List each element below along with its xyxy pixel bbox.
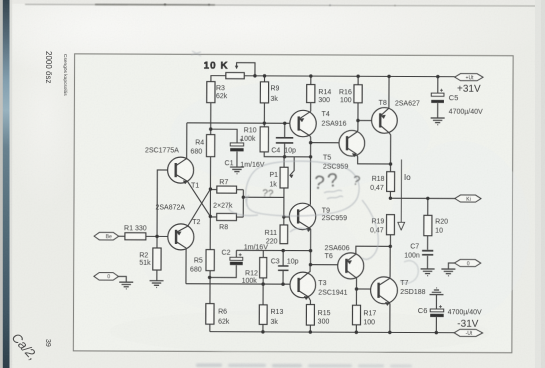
- wire 10K pot bracket: [237, 63, 255, 76]
- pencil annotations: [191, 51, 418, 283]
- wire T7 base: [357, 288, 371, 290]
- wire 0-in pennant to ground: [118, 276, 126, 282]
- capacitor C7 ceramic: [422, 251, 433, 255]
- transistor T8 circle: [372, 108, 398, 134]
- wire C2 top lead: [235, 250, 237, 257]
- wire 0-out pennant to ground: [448, 263, 454, 269]
- pennant 0 input: [94, 273, 119, 281]
- wire T7 collector riser: [389, 246, 391, 278]
- wire R12 leads: [262, 250, 264, 284]
- pencil curl near T7: [400, 261, 418, 283]
- wire R8 leads: [210, 216, 243, 218]
- node T9c: [309, 155, 312, 158]
- capacitor C1 electrolytic: [230, 138, 243, 151]
- Io current arrow line: [400, 159, 402, 222]
- ground C7: [421, 269, 435, 276]
- pencil question marks: [262, 170, 362, 200]
- resistor R18: [387, 172, 395, 192]
- node rail-R14: [309, 74, 312, 77]
- node rail-R16: [356, 75, 359, 78]
- T3 base bar and leads (npn): [299, 273, 309, 300]
- resistor R17: [352, 305, 360, 325]
- pennant Be: [94, 232, 119, 240]
- wire R19 bottom lead: [389, 235, 391, 247]
- wire mid node line y250.6: [236, 249, 310, 251]
- transistor T9 circle: [289, 203, 316, 230]
- wire C7 bottom to ground: [427, 256, 429, 269]
- wire R5 bottom to R6: [209, 271, 211, 332]
- transistor internals: [175, 66, 391, 306]
- wire P1 bottom to R11: [283, 188, 285, 225]
- wire output line to Ki: [390, 197, 454, 199]
- wire T3 collector riser: [308, 265, 310, 273]
- wire T1 collector riser: [186, 123, 188, 159]
- ground output 0: [441, 269, 455, 276]
- pennant Ki: [455, 195, 481, 202]
- resistor 10K (trimmer at top): [226, 73, 244, 79]
- wire R7 leads: [210, 189, 243, 191]
- pennant labels: [105, 74, 474, 337]
- resistor R7: [217, 186, 237, 193]
- T6 base bar and leads (pnp): [346, 254, 356, 278]
- wire T5 collector riser: [356, 120, 359, 131]
- ground input 0: [119, 282, 133, 289]
- wire C4 leads: [284, 123, 286, 156]
- node T8c-T5e-R18: [389, 162, 392, 165]
- node R3-R4-C1: [209, 127, 212, 130]
- resistor R15: [306, 305, 314, 326]
- node R9-R10-T4b: [263, 121, 266, 124]
- terminal pennants: [94, 72, 484, 336]
- transistor T7 circle: [371, 277, 398, 304]
- resistor R2: [153, 248, 161, 270]
- ground C5: [431, 118, 445, 125]
- pencil big loop: [246, 161, 359, 216]
- pencil small inner curve: [228, 207, 258, 216]
- node R19-T6e-T7c: [389, 245, 392, 248]
- T1 base bar and leads: [176, 158, 188, 184]
- T8 base bar and leads (pnp): [380, 108, 389, 133]
- wire T9 base: [284, 216, 298, 218]
- node C4-P1: [283, 155, 286, 158]
- wire C2 bottom L: [210, 265, 237, 278]
- node rail-T7e: [388, 331, 391, 334]
- wire R13 leads: [262, 284, 264, 332]
- node R5-R6-C2: [208, 276, 211, 279]
- node rail-R9: [263, 74, 266, 77]
- wire R9 leads: [263, 76, 265, 127]
- node C3 bottom: [281, 282, 284, 285]
- resistor R8: [217, 213, 237, 220]
- wire T6 emitter up: [356, 246, 391, 254]
- pennant -Ut: [454, 329, 482, 336]
- wire R16 leads: [357, 76, 359, 120]
- wire T1 base riser: [157, 170, 176, 236]
- resistor R1: [125, 233, 146, 240]
- node input bases: [155, 235, 158, 238]
- wire R3-R4 column: [210, 103, 212, 135]
- ground symbols: [119, 117, 456, 295]
- component bodies: [125, 72, 433, 325]
- resistor R9: [260, 82, 268, 103]
- wire C3 leads: [282, 251, 284, 285]
- T2 base bar and leads (pnp): [176, 226, 188, 248]
- wire C6 leads: [435, 295, 437, 333]
- schematic frame: [73, 54, 513, 353]
- resistor R13: [259, 305, 267, 325]
- resistor R20: [424, 215, 432, 235]
- pennant +Ut: [455, 74, 483, 81]
- wire T9 emitter drop: [310, 229, 312, 251]
- wire R20 leads: [427, 198, 429, 249]
- wire R2 leads: [156, 236, 158, 280]
- node T4c-T5b: [309, 141, 312, 144]
- wire T6 collector down: [356, 278, 358, 289]
- T5 base bar and leads (npn): [347, 132, 357, 157]
- wire R1 to T2 base: [146, 235, 176, 237]
- wire T1 collector to T4 base: [187, 122, 290, 124]
- node rail-bracket: [253, 74, 256, 77]
- wire T3 emitter to R15: [308, 297, 310, 332]
- node rail-R17: [355, 331, 358, 334]
- node output-R20: [426, 197, 429, 200]
- T9 base bar and leads (npn): [298, 205, 311, 232]
- transistor T5 circle: [339, 130, 365, 156]
- resistor R12: [260, 257, 267, 277]
- capacitor C3 ceramic: [278, 266, 289, 270]
- wire R17 leads: [355, 289, 357, 332]
- Io arrowhead: [398, 222, 405, 230]
- resistor R11: [280, 225, 288, 244]
- wire base line y284.2 to T3: [186, 283, 291, 285]
- pencil tilde marks: [324, 190, 343, 199]
- node output-R18-R19: [389, 197, 392, 200]
- node R7 left: [209, 187, 212, 190]
- wire R14 top lead: [310, 76, 312, 84]
- wire T7 emitter drop: [389, 303, 391, 333]
- subtle scan tint blotches: [109, 79, 530, 355]
- transistor T4 circle: [290, 110, 317, 137]
- ground R2: [150, 281, 164, 288]
- resistor R14: [307, 85, 315, 103]
- node rail-T8e: [387, 75, 390, 78]
- node R16-T8b-T5c: [356, 119, 359, 122]
- wire R18 leads: [389, 164, 391, 198]
- wire P1 top lead: [283, 157, 285, 167]
- node R11-C3: [281, 249, 284, 252]
- capacitor C6 electrolytic: [430, 305, 444, 317]
- node rail-R15: [309, 330, 312, 333]
- ground C1: [230, 167, 244, 174]
- potentiometer P1: [280, 167, 288, 188]
- node rail-C5: [436, 75, 439, 78]
- transistor T6 circle: [338, 253, 364, 279]
- node feedback: [242, 195, 245, 198]
- 10K trimmer arrow: [235, 66, 238, 69]
- pencil scribble on frame top: [191, 51, 201, 56]
- paper highlight top: [0, 0, 545, 90]
- transistor T3 circle: [290, 272, 316, 298]
- wire X diagonal T2e-R7: [188, 189, 211, 226]
- wire -31V bottom rail: [210, 332, 454, 333]
- wire R10 bottom L: [264, 152, 310, 157]
- capacitor C2 electrolytic: [230, 253, 243, 265]
- capacitor C4 ceramic: [276, 138, 293, 143]
- wire T2 collector drop: [185, 248, 187, 284]
- resistor R6: [206, 304, 214, 325]
- wire T4 collector node: [310, 136, 339, 157]
- top edge band: [0, 0, 545, 4]
- wire T5 emitter to node: [357, 154, 391, 164]
- resistor R4: [206, 135, 214, 157]
- node T9e: [309, 249, 312, 252]
- wire P1 wiper: [290, 157, 294, 176]
- wire T8 emitter riser: [388, 76, 390, 108]
- wire R7R8 right join: [242, 190, 244, 217]
- node P1-R11-T9b: [282, 215, 285, 218]
- wire T8 collector drop: [389, 133, 391, 164]
- pencil trailing curl right: [362, 200, 378, 259]
- resistor R19: [386, 215, 394, 235]
- top crease line: [25, 3, 543, 6]
- node rail-C6: [435, 331, 438, 334]
- resistor R10: [260, 127, 268, 152]
- wire feedback R7R8 to P1: [243, 196, 284, 198]
- pencil small curve under P1: [290, 228, 308, 232]
- node T6c-T7b-R17: [355, 287, 358, 290]
- T4 base bar and leads (pnp): [299, 111, 311, 136]
- node R12-R13: [261, 282, 264, 285]
- transistor T1 circle: [168, 157, 194, 183]
- node rail-R13: [261, 330, 264, 333]
- wire T9 collector riser: [309, 157, 311, 205]
- T7 base bar and leads (npn): [379, 278, 390, 305]
- wire C5 leads: [437, 77, 439, 118]
- transistor T2 circle: [168, 224, 194, 250]
- ground C6 inverted: [429, 288, 443, 295]
- capacitors: [229, 88, 444, 317]
- right page-edge band: [535, 0, 545, 368]
- wire C1 branch: [211, 129, 238, 167]
- resistor R5: [206, 250, 214, 271]
- capacitor C5 electrolytic: [431, 89, 444, 103]
- wire node to T6 base: [311, 251, 338, 265]
- wire T4 emitter lead: [310, 103, 312, 112]
- left book spine strip: [0, 0, 3, 368]
- node T6b-T3c: [309, 263, 312, 266]
- wire main column R4-R5: [209, 157, 211, 250]
- resistor R3: [207, 82, 215, 103]
- wire X diagonal T1e-R8: [187, 181, 210, 216]
- resistor R16: [354, 85, 362, 103]
- wire input Be to R1: [119, 235, 125, 237]
- ghost print show-through at bottom edge: [196, 364, 412, 368]
- pennant 0 output: [455, 260, 481, 267]
- P1 wiper arrowhead: [290, 175, 293, 178]
- node R8 left: [209, 215, 212, 218]
- node C4 top: [283, 122, 286, 125]
- wire T8 base: [358, 119, 372, 121]
- wire +31V rail: [211, 76, 455, 83]
